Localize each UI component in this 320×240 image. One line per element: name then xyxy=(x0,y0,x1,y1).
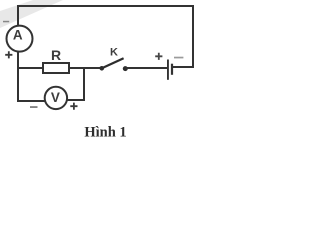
wire: top horizontal xyxy=(17,5,194,7)
voltmeter V1 circle xyxy=(45,87,67,109)
wire: ammeter bottom to middle-left node xyxy=(17,52,19,69)
scan artifact band (decorative) xyxy=(0,0,63,28)
battery plus label xyxy=(155,53,162,60)
svg-text:K: K xyxy=(110,46,118,58)
wire: voltmeter loop left leg down xyxy=(17,67,19,102)
wire: switch right contact to battery positive plate xyxy=(125,67,167,69)
switch K left contact dot xyxy=(100,66,105,71)
resistor R body xyxy=(43,63,69,73)
wire: loop bottom horizontal to voltmeter left terminal xyxy=(17,100,45,102)
svg-text:V: V xyxy=(51,90,60,105)
battery minus label xyxy=(174,57,183,59)
wire: resistor right terminal to switch left contact xyxy=(69,67,102,69)
svg-text:A: A xyxy=(13,28,23,43)
svg-text:R: R xyxy=(51,47,61,63)
battery negative plate (short) xyxy=(171,64,173,75)
voltmeter plus polarity xyxy=(70,103,77,110)
wire: ammeter top to top-left corner xyxy=(17,7,19,25)
ammeter minus polarity xyxy=(3,21,9,23)
voltmeter minus polarity xyxy=(30,106,38,108)
ammeter plus polarity xyxy=(5,51,12,58)
wire: battery negative plate to right vertical xyxy=(173,66,195,68)
ammeter A1 circle xyxy=(7,26,33,52)
wire: node to resistor left terminal xyxy=(17,67,43,69)
svg-text:Hình 1: Hình 1 xyxy=(84,124,126,140)
wire: voltmeter right terminal to loop right leg xyxy=(67,99,85,101)
wire: right vertical xyxy=(192,5,194,68)
switch K lever arm xyxy=(102,58,124,68)
battery positive plate (long) xyxy=(167,60,169,80)
wire: loop right leg up to middle wire xyxy=(83,67,85,101)
switch K right contact dot xyxy=(123,66,128,71)
